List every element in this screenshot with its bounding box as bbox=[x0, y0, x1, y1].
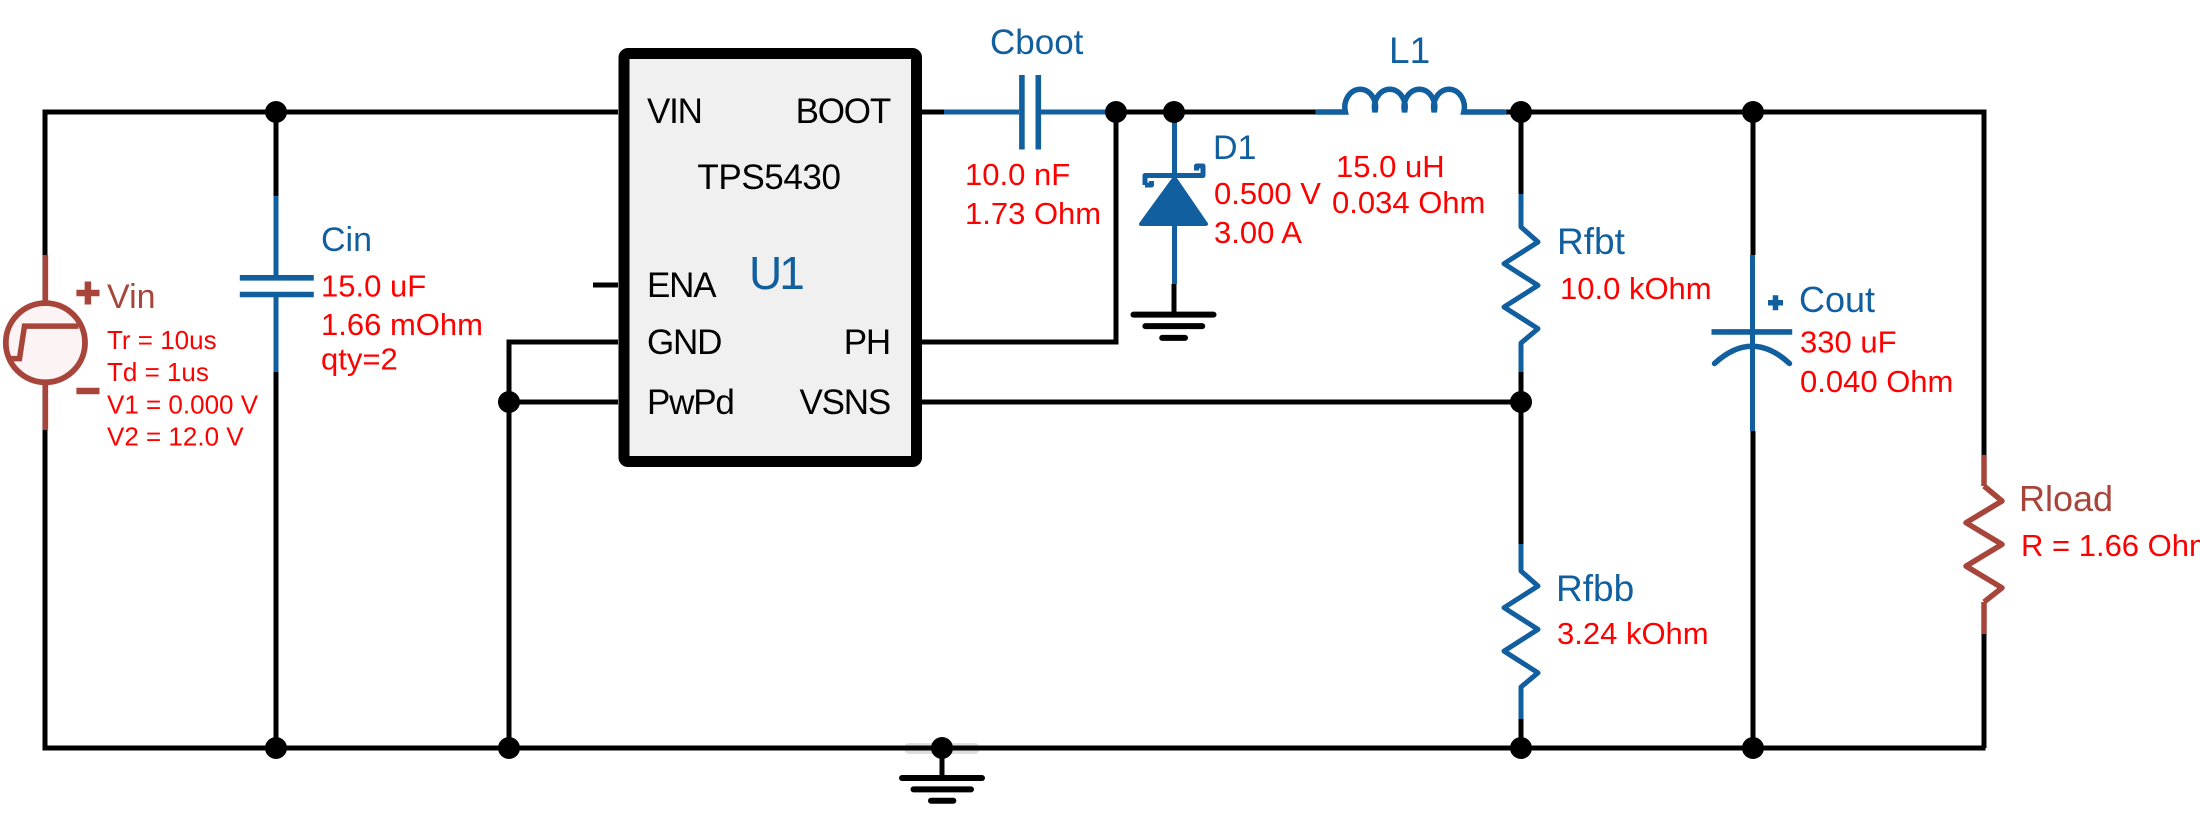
resistor Rload zigzag bbox=[1966, 486, 2002, 602]
Vin bottom lead (dark red) bbox=[43, 382, 49, 430]
wire GND corner down to PwPd node bbox=[507, 340, 512, 403]
svg-text:VIN: VIN bbox=[647, 92, 702, 131]
wire PwPd pin bbox=[509, 400, 618, 405]
svg-text:TPS5430: TPS5430 bbox=[697, 158, 840, 197]
wire VSNS pin to feedback node bbox=[922, 400, 1521, 405]
wire node BOOT-PH to L1 bbox=[1116, 110, 1318, 115]
capacitor Cout curved bottom plate bbox=[1715, 346, 1790, 363]
svg-text:Td = 1us: Td = 1us bbox=[107, 357, 209, 387]
svg-text:1.73 Ohm: 1.73 Ohm bbox=[965, 196, 1101, 231]
wire PH vertical up to BOOT node bbox=[1114, 112, 1119, 345]
resistor Rload leads (dark red) bbox=[1981, 455, 1987, 634]
svg-text:3.00 A: 3.00 A bbox=[1214, 215, 1302, 250]
ground bottom center highlight bbox=[904, 743, 980, 754]
diode D1 bottom lead bbox=[1172, 220, 1177, 284]
wire Vin column upper black bbox=[43, 112, 48, 255]
capacitor Cout top plate bbox=[1712, 329, 1793, 335]
svg-text:1.66 mOhm: 1.66 mOhm bbox=[321, 307, 483, 342]
diode D1 top lead bbox=[1172, 112, 1177, 176]
Vin top lead (dark red) bbox=[43, 255, 49, 303]
svg-text:0.040 Ohm: 0.040 Ohm bbox=[1800, 364, 1953, 399]
svg-text:Rload: Rload bbox=[2019, 478, 2113, 519]
ground bottom center bbox=[902, 778, 982, 801]
junction node dots bbox=[265, 101, 1764, 759]
wire Rfbt column upper black bbox=[1519, 112, 1524, 194]
wire right rail lower bbox=[1982, 633, 1987, 748]
diode D1 schottky cathode bar bbox=[1145, 166, 1203, 185]
svg-text:PwPd: PwPd bbox=[647, 383, 734, 422]
wire Rfbb upper black bbox=[1519, 402, 1524, 544]
Vin minus sign bbox=[76, 388, 99, 395]
svg-text:R = 1.66 Ohm: R = 1.66 Ohm bbox=[2021, 528, 2200, 563]
wire Cin column lower black bbox=[274, 372, 279, 748]
svg-text:15.0 uH: 15.0 uH bbox=[1336, 149, 1445, 184]
svg-text:Tr = 10us: Tr = 10us bbox=[107, 325, 217, 355]
voltage source Vin circle bbox=[6, 303, 85, 382]
svg-text:V1 = 0.000 V: V1 = 0.000 V bbox=[107, 390, 259, 420]
svg-text:10.0 kOhm: 10.0 kOhm bbox=[1560, 271, 1712, 306]
svg-text:Cin: Cin bbox=[321, 221, 372, 259]
wire Rload upper black stub bbox=[1982, 430, 1987, 458]
svg-text:Vin: Vin bbox=[107, 278, 156, 316]
wire Cin column upper black bbox=[274, 112, 279, 196]
svg-text:Cboot: Cboot bbox=[990, 23, 1084, 62]
wire GND pin to corner bbox=[509, 340, 618, 345]
resistor Rfbt bbox=[1504, 194, 1538, 372]
wire D1 ground stub bbox=[1172, 284, 1177, 315]
svg-text:330 uF: 330 uF bbox=[1800, 325, 1897, 360]
wire top rail right segment (BOOT stub to Cboot) bbox=[922, 110, 946, 115]
svg-text:D1: D1 bbox=[1213, 129, 1256, 167]
inductor L1 bbox=[1318, 89, 1504, 112]
svg-text:U1: U1 bbox=[749, 247, 803, 299]
IC U1 box bbox=[624, 54, 917, 462]
wire right rail upper bbox=[1982, 110, 1987, 459]
capacitor Cin leads bbox=[274, 196, 279, 372]
wire PwPd node down to bottom rail bbox=[507, 402, 512, 748]
svg-text:V2 = 12.0 V: V2 = 12.0 V bbox=[107, 422, 244, 452]
svg-text:Rfbb: Rfbb bbox=[1556, 568, 1634, 609]
capacitor Cboot plates bbox=[1022, 75, 1038, 150]
wire L1 right to top-right corner bbox=[1502, 110, 1987, 115]
wire Cout column lower black bbox=[1751, 431, 1756, 748]
ground under D1 bbox=[1134, 315, 1214, 338]
svg-text:VSNS: VSNS bbox=[799, 383, 890, 422]
wire Rfbb lower black bbox=[1519, 719, 1524, 748]
resistor Rfbb bbox=[1504, 544, 1538, 719]
svg-text:PH: PH bbox=[844, 323, 890, 362]
svg-text:GND: GND bbox=[647, 323, 721, 362]
svg-text:Cout: Cout bbox=[1799, 279, 1875, 320]
wire PH pin horizontal bbox=[922, 340, 1116, 345]
svg-text:15.0 uF: 15.0 uF bbox=[321, 269, 426, 304]
Vin plus sign bbox=[76, 282, 99, 305]
svg-text:3.24 kOhm: 3.24 kOhm bbox=[1557, 616, 1709, 651]
svg-text:10.0 nF: 10.0 nF bbox=[965, 157, 1070, 192]
svg-text:qty=2: qty=2 bbox=[321, 342, 398, 377]
svg-text:ENA: ENA bbox=[647, 266, 717, 305]
capacitor Cin plates bbox=[240, 278, 314, 295]
capacitor Cout vertical lead bbox=[1750, 255, 1755, 431]
svg-text:Rfbt: Rfbt bbox=[1557, 221, 1626, 262]
wire Rfbt bottom black to VSNS node bbox=[1519, 372, 1524, 404]
capacitor Cboot leads (blue) bbox=[944, 110, 1119, 115]
wire Cout column upper black bbox=[1751, 112, 1756, 255]
svg-text:0.500 V: 0.500 V bbox=[1214, 176, 1321, 211]
wire Vin column lower black bbox=[43, 430, 48, 748]
wire bottom ground stub bbox=[940, 748, 945, 778]
wire top rail left (Vin node to VIN pin) bbox=[45, 110, 618, 115]
svg-text:L1: L1 bbox=[1389, 30, 1430, 71]
Vin step waveform bbox=[9, 326, 78, 359]
svg-text:0.034 Ohm: 0.034 Ohm bbox=[1332, 185, 1485, 220]
diode D1 triangle bbox=[1141, 178, 1206, 224]
wire left rail vertical bbox=[43, 110, 48, 751]
wire bottom rail bbox=[43, 746, 1986, 751]
wire ENA stub bbox=[593, 283, 618, 288]
svg-text:BOOT: BOOT bbox=[796, 92, 891, 131]
capacitor Cout plus sign bbox=[1768, 295, 1783, 310]
